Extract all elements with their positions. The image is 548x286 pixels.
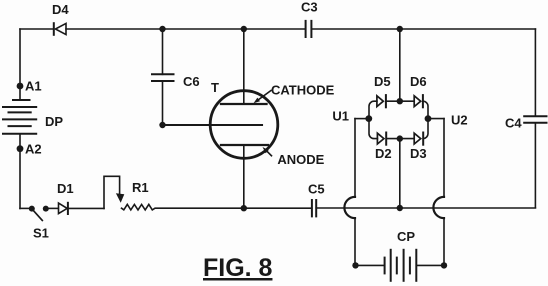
svg-text:D2: D2 xyxy=(375,146,392,161)
svg-text:D6: D6 xyxy=(410,74,427,89)
svg-text:A1: A1 xyxy=(25,79,42,94)
svg-text:FIG. 8: FIG. 8 xyxy=(203,254,273,282)
svg-text:CP: CP xyxy=(397,229,415,244)
svg-text:C5: C5 xyxy=(308,181,325,196)
svg-text:D1: D1 xyxy=(57,181,74,196)
svg-text:T: T xyxy=(211,80,219,95)
svg-text:U1: U1 xyxy=(332,109,349,124)
svg-text:A2: A2 xyxy=(25,142,42,157)
svg-text:D3: D3 xyxy=(410,146,427,161)
svg-text:DP: DP xyxy=(45,114,63,129)
svg-text:C6: C6 xyxy=(183,74,200,89)
svg-text:U2: U2 xyxy=(451,113,468,128)
svg-text:D5: D5 xyxy=(374,74,391,89)
svg-text:R1: R1 xyxy=(132,180,149,195)
svg-text:CATHODE: CATHODE xyxy=(271,83,335,98)
svg-text:C4: C4 xyxy=(505,115,522,130)
svg-text:S1: S1 xyxy=(33,226,49,241)
svg-text:D4: D4 xyxy=(52,2,69,17)
svg-text:ANODE: ANODE xyxy=(277,152,324,167)
svg-text:C3: C3 xyxy=(301,0,318,15)
